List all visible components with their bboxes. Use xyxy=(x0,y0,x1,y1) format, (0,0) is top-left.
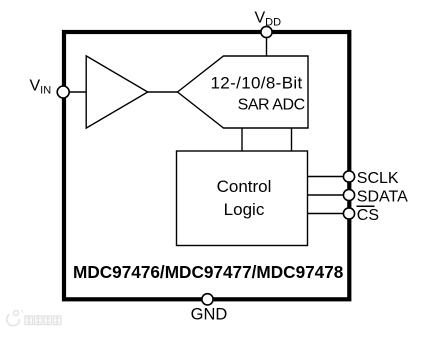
pin VIN xyxy=(57,86,69,98)
svg-text:GND: GND xyxy=(191,306,228,324)
pin VDD xyxy=(261,26,272,37)
watermark text xyxy=(25,316,61,325)
wire amp to ADC xyxy=(148,91,178,93)
wire control logic to SDATA xyxy=(308,194,345,196)
svg-text:Logic: Logic xyxy=(224,200,265,219)
label SAR ADC xyxy=(211,73,305,113)
svg-text:Control: Control xyxy=(217,177,272,196)
pin CS xyxy=(343,208,354,219)
watermark logo xyxy=(7,310,23,325)
pin SDATA xyxy=(343,189,354,200)
pin SCLK xyxy=(343,171,354,182)
overline on CS xyxy=(357,205,375,207)
chip outline xyxy=(64,32,349,299)
label Control Logic xyxy=(217,177,272,219)
svg-text:MDC97476/MDC97477/MDC97478: MDC97476/MDC97477/MDC97478 xyxy=(73,262,344,282)
svg-text:12-/10/8-Bit: 12-/10/8-Bit xyxy=(211,73,303,92)
svg-text:SDATA: SDATA xyxy=(357,189,408,206)
block SAR ADC xyxy=(178,56,309,128)
wire VDD to ADC xyxy=(266,37,268,56)
svg-text:SAR ADC: SAR ADC xyxy=(238,96,305,113)
block Control Logic xyxy=(177,151,308,246)
wire VIN to amp xyxy=(70,91,87,93)
wire ADC to control logic right xyxy=(291,128,293,151)
wire ADC to control logic left xyxy=(241,128,243,151)
svg-text:VIN: VIN xyxy=(30,77,52,96)
wire control logic to CS xyxy=(308,213,345,215)
wire control logic to SCLK xyxy=(308,176,345,178)
pin GND xyxy=(202,294,213,305)
svg-text:VDD: VDD xyxy=(255,9,282,28)
svg-text:CS: CS xyxy=(357,207,379,224)
svg-text:SCLK: SCLK xyxy=(357,170,399,187)
op-amp buffer A1 xyxy=(86,56,148,128)
